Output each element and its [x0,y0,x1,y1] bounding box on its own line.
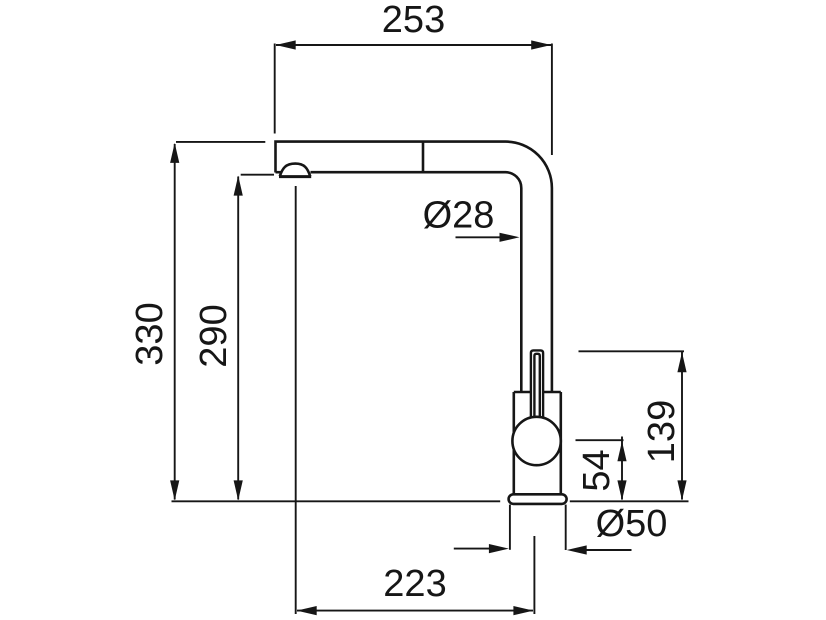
svg-text:253: 253 [382,0,445,41]
arrowhead 139 up [677,352,686,372]
dim 253 extension line left [274,44,276,134]
arrowhead 54 up [617,441,626,461]
arrowhead 54 down [617,480,626,500]
dim 54 top extension line [576,439,624,441]
svg-text:139: 139 [641,400,683,463]
arrowhead 330 up [170,143,179,163]
dim 290 dimension line [237,177,239,500]
dim 54 dimension line [621,437,623,500]
arrowhead 330 down [170,480,179,500]
arrowhead 290 up [234,176,243,196]
faucet spout bottom edge left stub [276,171,282,174]
arrowhead dia50 right-leader pointing left [567,545,587,554]
svg-text:Ø50: Ø50 [596,503,668,545]
arrowhead 139 down [677,480,686,500]
dim 290 top extension line [241,174,274,176]
faucet handle outer outline [531,350,543,419]
arrowhead 253 left [276,40,296,49]
faucet base flange [509,494,567,504]
dim 253 dimension line [276,44,551,46]
dia50 right leader line [584,549,632,551]
countertop baseline left segment [172,500,501,502]
dim 139 dimension line [681,352,683,500]
faucet cartridge circle [512,417,560,465]
arrowhead 223 left [297,606,317,615]
faucet spout outer contour (left end, top edge, outer corner arc, outer right wall) [276,142,552,392]
dim 253 extension line right [551,44,553,156]
faucet body left wall [512,392,515,495]
faucet body right wall [559,392,562,495]
arrowhead 290 down [234,480,243,500]
faucet body top edge left segment [514,391,531,394]
arrowhead dia28 right [500,233,520,242]
dim 223 dimension line [297,610,533,612]
countertop baseline right segment [570,500,689,502]
svg-text:54: 54 [576,449,618,491]
svg-text:Ø28: Ø28 [423,195,495,237]
dim 330 top extension line [176,141,265,143]
arrowhead dia50 left-leader pointing right [489,544,509,553]
dia28 leader line [456,236,503,238]
arrowhead 253 right [531,40,551,49]
dim 139 top extension line [579,350,685,352]
faucet body top edge right segment [543,391,561,394]
dia50 extension line right below counter [565,505,567,550]
dim 223 extension line left (spout tip centerline) [295,186,297,614]
dim 330 dimension line [174,144,176,500]
svg-text:330: 330 [129,302,171,365]
dim 223 extension line right (faucet centerline) [533,536,535,614]
faucet handle inner outline [534,354,539,419]
dia50 extension line left below counter [509,505,511,550]
faucet aerator dome [280,164,310,177]
faucet aerator base line [279,175,311,178]
svg-text:223: 223 [383,563,446,605]
dia50 left leader line [454,548,492,550]
arrowhead 223 right [513,606,533,615]
svg-text:290: 290 [193,304,235,367]
faucet spout joint line [422,142,425,173]
faucet spout inner contour (inner right wall, inner corner arc, bottom edge) [311,172,522,392]
